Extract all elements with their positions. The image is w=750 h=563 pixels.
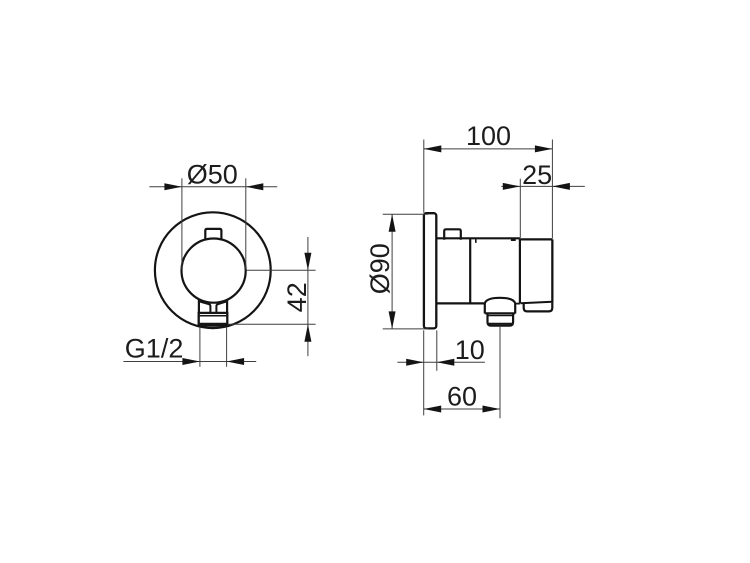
dimension 25 line [501, 185, 585, 187]
dimension 25 right arrow [552, 183, 570, 190]
outlet right wall (side) [514, 303, 516, 314]
dimension 10 line [397, 361, 485, 363]
collar mid line (front) [200, 315, 227, 317]
dimension G1/2 line [123, 361, 256, 363]
dimension G1/2 extension line left [199, 327, 201, 367]
body bottom edge [436, 302, 485, 304]
dimension Ø50 extension line left [181, 178, 183, 269]
dimension 25 left arrow [503, 183, 521, 190]
dimension 10 right arrow [437, 359, 455, 366]
dimension 60 left arrow [424, 406, 442, 413]
outlet right wing (front) [216, 302, 226, 314]
collar mid line (side) [488, 315, 512, 317]
dimension 25 extension line [519, 179, 521, 238]
svg-text:42: 42 [282, 282, 312, 312]
dimension 100 right arrow [535, 145, 553, 152]
dimension 100 extension line right [551, 140, 553, 239]
end cap bottom slope [520, 302, 552, 304]
dimension 42 top arrow [304, 253, 311, 270]
dimension 10 extension line left [423, 330, 425, 415]
outlet centerline / dimension 60 extension right [499, 326, 501, 418]
svg-text:100: 100 [466, 121, 511, 151]
dimension Ø90 top arrow [389, 214, 396, 232]
dimension Ø50 left arrow [164, 183, 182, 190]
dimension Ø90 bottom arrow [389, 311, 396, 329]
dimension 100 line [424, 148, 553, 150]
collar bottom band (side) [488, 323, 512, 325]
handle tab (front) [205, 229, 221, 241]
wall flange plate (side) [424, 213, 436, 328]
dimension 42 extension line top [247, 269, 316, 271]
dimension Ø90 line [391, 214, 393, 329]
svg-text:Ø90: Ø90 [365, 243, 395, 294]
notch under end cap [515, 303, 520, 305]
dimension Ø90 extension line bottom [383, 328, 429, 330]
outlet dome (side) [485, 298, 515, 304]
svg-text:10: 10 [455, 335, 485, 365]
dimension G1/2 left arrow [182, 358, 200, 365]
svg-text:Ø50: Ø50 [187, 160, 238, 190]
outlet left wing (front) [200, 302, 211, 314]
body section separator 2 [519, 239, 521, 304]
handle tab (side) [444, 229, 461, 239]
svg-text:25: 25 [522, 160, 552, 190]
outlet neck right wall (front) [226, 299, 228, 313]
dimension 42 line [307, 237, 309, 356]
dimension 10 extension line right [436, 330, 438, 371]
dimension G1/2 right arrow [227, 358, 245, 365]
body top edge left part [436, 237, 520, 239]
dimension 100 extension line left [423, 140, 425, 213]
collar body (side) [488, 313, 514, 325]
body top edge right part [520, 238, 553, 240]
svg-text:60: 60 [447, 381, 477, 411]
dimension 42 bottom arrow [304, 324, 311, 342]
dimension Ø90 extension line top [383, 213, 429, 215]
dimension 10 left arrow [406, 359, 424, 366]
dimension Ø50 line [149, 186, 277, 188]
holder lip outline [524, 302, 553, 312]
dimension Ø50 right arrow [246, 183, 263, 190]
inner knob circle [182, 239, 246, 303]
collar bottom band (front) [200, 323, 227, 325]
body section separator 1 [469, 238, 471, 303]
outlet neck left wall (front) [198, 299, 200, 313]
collar top line (side) [485, 312, 515, 314]
tick on body top right [511, 239, 516, 241]
dimension 100 left arrow [424, 145, 442, 152]
threaded collar outline (front) [199, 313, 228, 326]
end cap right edge [551, 239, 553, 302]
dimension 60 line [424, 408, 500, 410]
outer flange circle [155, 212, 271, 328]
dimension G1/2 extension line right [226, 327, 228, 367]
dimension 60 right arrow [483, 406, 501, 413]
dimension Ø50 extension line right [245, 178, 247, 269]
outlet left wall (side) [484, 303, 486, 314]
svg-text:G1/2: G1/2 [125, 334, 184, 364]
tick on body top left [475, 239, 477, 243]
dimension 42 extension line bottom [228, 323, 315, 325]
